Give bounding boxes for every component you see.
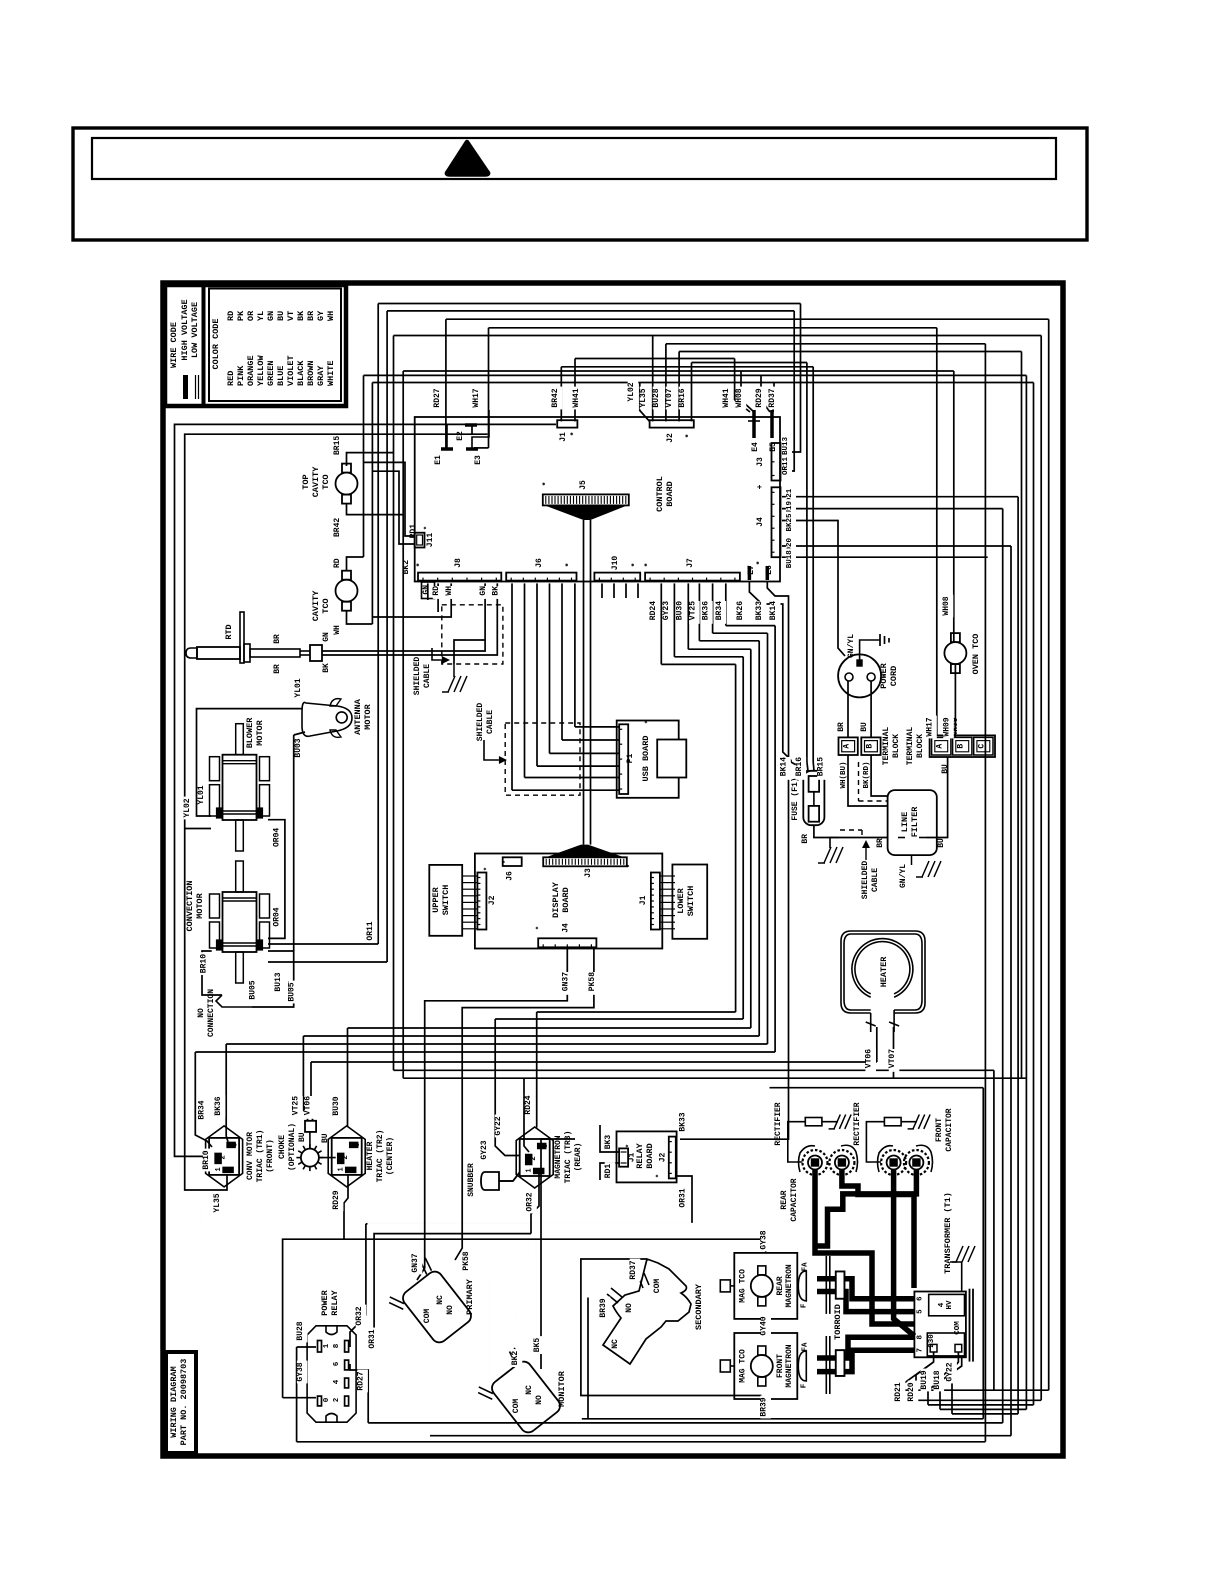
svg-text:GRAY: GRAY — [316, 365, 326, 386]
svg-text:YL02: YL02 — [183, 798, 192, 817]
svg-text:WH(BU): WH(BU) — [840, 761, 848, 788]
svg-text:GY22: GY22 — [946, 1362, 955, 1381]
svg-text:YL01: YL01 — [294, 678, 303, 697]
svg-text:6: 6 — [333, 1361, 341, 1366]
svg-text:E4: E4 — [751, 442, 760, 452]
svg-text:BR: BR — [876, 838, 885, 848]
svg-text:BLOCK: BLOCK — [892, 734, 901, 758]
svg-text:*: * — [424, 526, 432, 530]
svg-text:2: 2 — [333, 1397, 341, 1402]
svg-text:J2: J2 — [488, 895, 497, 905]
svg-text:F: F — [800, 1383, 808, 1388]
svg-text:WH: WH — [445, 586, 454, 596]
connector J3 control — [756, 443, 781, 489]
wires J4 pins right — [782, 497, 1018, 656]
svg-text:BU30: BU30 — [675, 601, 684, 620]
svg-text:BU18: BU18 — [786, 550, 794, 569]
svg-text:*: * — [756, 561, 765, 566]
svg-text:J10: J10 — [611, 556, 620, 571]
triac TR2 heater — [328, 1097, 395, 1209]
warning triangle — [447, 142, 488, 175]
svg-text:COM: COM — [653, 1279, 662, 1294]
svg-text:BR: BR — [306, 310, 316, 321]
svg-text:GN: GN — [322, 632, 331, 642]
svg-text:SWITCH: SWITCH — [686, 886, 696, 917]
svg-text:*: * — [685, 434, 694, 439]
svg-text:RTD: RTD — [224, 624, 234, 639]
svg-text:1: 1 — [338, 1167, 346, 1171]
svg-text:(CENTER): (CENTER) — [386, 1137, 395, 1175]
svg-text:BR: BR — [801, 834, 810, 844]
svg-text:*: * — [570, 432, 579, 437]
svg-text:*: * — [645, 720, 653, 724]
svg-text:OR04: OR04 — [273, 828, 282, 847]
diagram border — [163, 283, 1063, 1456]
wires oven TCO — [937, 328, 956, 738]
svg-text:2: 2 — [530, 1156, 538, 1161]
svg-text:0: 0 — [323, 1397, 331, 1402]
wire BU03 antenna — [294, 732, 305, 951]
svg-text:TRIAC (TR1): TRIAC (TR1) — [256, 1130, 265, 1183]
svg-text:COLOR CODE: COLOR CODE — [211, 318, 221, 369]
svg-text:COM: COM — [954, 1321, 962, 1335]
terminal E7 — [747, 565, 756, 580]
svg-text:RD21: RD21 — [894, 1382, 903, 1401]
svg-text:WH41: WH41 — [572, 388, 581, 407]
svg-text:MOTOR: MOTOR — [363, 703, 373, 729]
svg-text:BR34: BR34 — [197, 1100, 206, 1119]
svg-text:CABLE: CABLE — [423, 664, 432, 688]
svg-text:VT06: VT06 — [865, 1049, 874, 1068]
svg-text:F: F — [800, 1303, 808, 1308]
connector J4 control — [756, 487, 781, 565]
svg-text:2: 2 — [220, 1155, 228, 1160]
svg-text:BU: BU — [860, 722, 869, 732]
svg-text:A: A — [843, 744, 852, 749]
svg-text:BU: BU — [298, 1132, 307, 1142]
svg-text:OR: OR — [246, 310, 256, 321]
wires top cavity TCO — [347, 453, 404, 515]
svg-text:REAR: REAR — [780, 1190, 789, 1209]
wire verticals right side — [983, 319, 1048, 1442]
svg-text:GN/YL: GN/YL — [847, 634, 856, 658]
svg-text:BR15: BR15 — [817, 757, 826, 776]
svg-text:*: * — [644, 563, 653, 568]
svg-text:BK(RD): BK(RD) — [863, 761, 871, 788]
svg-text:5: 5 — [917, 1309, 925, 1314]
svg-text:GN/YL: GN/YL — [899, 864, 908, 888]
svg-text:NO: NO — [197, 1008, 206, 1018]
svg-text:BR42: BR42 — [333, 518, 342, 537]
wires J8 pins down — [372, 583, 485, 664]
HV wires rear magnetron FA — [817, 1279, 914, 1312]
svg-text:CONTROL: CONTROL — [655, 476, 665, 512]
svg-text:WH09: WH09 — [943, 717, 952, 736]
svg-text:CABLE: CABLE — [871, 868, 880, 892]
svg-text:1: 1 — [323, 1343, 331, 1348]
svg-text:CAPACITOR: CAPACITOR — [790, 1178, 799, 1221]
svg-text:BU13: BU13 — [274, 972, 283, 991]
svg-text:8: 8 — [917, 1335, 925, 1340]
HV wire rear capacitor left — [815, 1169, 914, 1324]
svg-text:NO: NO — [625, 1303, 634, 1313]
wire bundle bottom horizontal — [297, 1390, 1049, 1442]
svg-text:MONITOR: MONITOR — [557, 1370, 567, 1407]
oven TCO — [942, 596, 981, 674]
svg-text:A: A — [936, 744, 945, 749]
svg-text:GREEN: GREEN — [266, 360, 276, 386]
svg-text:RD: RD — [333, 558, 342, 568]
terminal E4 — [748, 410, 760, 452]
svg-text:BU30: BU30 — [332, 1096, 341, 1115]
svg-text:G: G — [232, 1143, 240, 1147]
primary interlock switch — [381, 1251, 475, 1353]
display board — [475, 854, 662, 949]
svg-text:LINE: LINE — [900, 812, 910, 832]
terminal E6 — [765, 565, 774, 580]
svg-text:RD24: RD24 — [649, 601, 658, 620]
svg-text:BK36: BK36 — [701, 601, 710, 620]
svg-text:J4: J4 — [756, 517, 765, 527]
svg-text:SHIELDED: SHIELDED — [413, 657, 422, 696]
svg-text:MAGNETRON: MAGNETRON — [785, 1344, 794, 1387]
svg-text:J6: J6 — [535, 558, 544, 568]
wire label overlay — [183, 381, 957, 1419]
svg-text:YELLOW: YELLOW — [256, 354, 266, 386]
svg-text:YL35: YL35 — [639, 388, 648, 407]
svg-text:J8: J8 — [454, 558, 463, 568]
terminal E2 — [456, 425, 477, 441]
terminal E3 — [466, 410, 489, 465]
svg-text:(FRONT): (FRONT) — [266, 1139, 275, 1173]
convection motor — [185, 828, 282, 983]
svg-text:BLACK: BLACK — [296, 360, 306, 386]
wires magnetron GY38 GY40 BR39 — [761, 1319, 763, 1399]
svg-text:RD20: RD20 — [907, 1382, 916, 1401]
svg-text:BR10: BR10 — [202, 1150, 211, 1169]
svg-text:BOARD: BOARD — [645, 1143, 655, 1169]
svg-text:COM: COM — [423, 1309, 432, 1324]
wires J11 RD1 BK2 — [364, 462, 415, 544]
svg-text:RD: RD — [226, 311, 236, 321]
svg-text:FILTER: FILTER — [910, 806, 920, 838]
svg-text:MAG TCO: MAG TCO — [738, 1349, 747, 1383]
toroid cores — [833, 1272, 844, 1376]
svg-text:1: 1 — [215, 1167, 223, 1171]
wires power relay — [283, 1223, 766, 1442]
svg-text:BU03: BU03 — [294, 738, 303, 757]
svg-text:BK33: BK33 — [755, 601, 764, 620]
svg-text:BK: BK — [296, 310, 306, 321]
svg-text:SHIELDED: SHIELDED — [476, 703, 485, 742]
svg-text:NC: NC — [436, 1295, 445, 1305]
wires line filter to C block — [926, 757, 948, 838]
svg-text:YL: YL — [256, 311, 266, 321]
svg-text:ANTENNA: ANTENNA — [353, 698, 363, 735]
svg-text:RD: RD — [432, 586, 441, 596]
svg-text:CABLE: CABLE — [486, 710, 495, 734]
svg-text:BU05: BU05 — [249, 980, 258, 999]
top cavity TCO — [301, 436, 358, 537]
HV wire front capacitor left — [894, 1169, 915, 1336]
svg-text:SECONDARY: SECONDARY — [694, 1283, 704, 1330]
svg-text:CAVITY: CAVITY — [311, 590, 321, 622]
svg-text:J2: J2 — [659, 1153, 668, 1163]
svg-text:SWITCH: SWITCH — [441, 885, 451, 916]
connector J1 — [557, 420, 579, 442]
wires RD1 BK3 to relay board J1 — [600, 1125, 619, 1180]
svg-text:E3: E3 — [474, 455, 483, 465]
svg-text:TCO: TCO — [321, 598, 331, 613]
svg-text:YL02: YL02 — [627, 382, 636, 401]
svg-text:TCO: TCO — [321, 474, 331, 489]
connector J2 display — [462, 867, 497, 930]
svg-text:POWER: POWER — [879, 662, 889, 688]
svg-text:RD27: RD27 — [433, 388, 442, 407]
svg-text:BK26: BK26 — [736, 601, 745, 620]
svg-text:*: * — [484, 867, 492, 871]
svg-text:SNUBBER: SNUBBER — [467, 1163, 476, 1197]
RTD probe — [186, 612, 331, 674]
power relay — [296, 1289, 377, 1422]
power cord — [838, 634, 899, 698]
antenna motor — [294, 678, 373, 756]
svg-text:BU: BU — [937, 838, 946, 848]
svg-text:1: 1 — [526, 1168, 534, 1172]
heater element — [841, 931, 925, 1068]
svg-text:COM: COM — [512, 1399, 521, 1414]
svg-text:HIGH VOLTAGE: HIGH VOLTAGE — [180, 299, 190, 360]
svg-text:BU13: BU13 — [782, 437, 790, 456]
svg-text:WIRE CODE: WIRE CODE — [169, 322, 179, 368]
svg-text:OR32: OR32 — [526, 1192, 535, 1211]
svg-text:BR: BR — [273, 664, 282, 674]
svg-text:BK36: BK36 — [214, 1096, 223, 1115]
wires J6 pins down to USB — [512, 583, 619, 790]
connector J11 — [415, 526, 435, 548]
svg-text:*: * — [536, 926, 544, 930]
svg-text:ORANGE: ORANGE — [246, 355, 256, 386]
svg-text:4: 4 — [938, 1302, 946, 1307]
wires motors — [197, 709, 388, 1007]
svg-text:CONV MOTOR: CONV MOTOR — [246, 1132, 255, 1180]
connector J10 — [594, 556, 640, 581]
svg-text:BU19: BU19 — [920, 1370, 929, 1389]
svg-text:BK14: BK14 — [780, 757, 789, 776]
svg-text:NO: NO — [535, 1395, 544, 1405]
legend box WIRE CODE / COLOR CODE — [165, 285, 346, 406]
svg-text:GY38: GY38 — [760, 1230, 769, 1249]
svg-text:8: 8 — [333, 1343, 341, 1348]
svg-text:VT25: VT25 — [292, 1096, 301, 1115]
svg-text:(REAR): (REAR) — [574, 1143, 583, 1172]
svg-text:BR39: BR39 — [760, 1397, 769, 1416]
svg-text:BR16: BR16 — [678, 388, 687, 407]
svg-text:WHITE: WHITE — [326, 360, 336, 386]
svg-text:USB BOARD: USB BOARD — [641, 736, 651, 782]
wire WH09 block B — [961, 664, 963, 735]
rear magnetron with mag TCO — [720, 1230, 830, 1319]
svg-text:J7: J7 — [686, 558, 695, 568]
svg-text:J1: J1 — [559, 432, 568, 442]
svg-text:J3: J3 — [756, 457, 765, 467]
svg-text:RD1: RD1 — [604, 1164, 613, 1179]
snubber — [467, 1163, 519, 1197]
svg-text:P1: P1 — [626, 754, 635, 764]
connector J5 with fan — [542, 480, 629, 520]
svg-text:*: * — [502, 860, 509, 864]
choke optional — [278, 1096, 336, 1171]
terminal block A B C — [906, 717, 995, 774]
svg-text:RD29: RD29 — [332, 1190, 341, 1209]
terminal E5 — [769, 410, 778, 452]
svg-text:RELAY: RELAY — [635, 1142, 645, 1168]
wire verticals from top bundle — [364, 304, 814, 1079]
svg-text:BU05: BU05 — [288, 982, 297, 1001]
svg-text:MAGNETRON: MAGNETRON — [785, 1264, 794, 1307]
ground at fuse shield — [818, 838, 843, 864]
shielded cable dashed box 2 — [476, 703, 580, 796]
svg-text:LOW VOLTAGE: LOW VOLTAGE — [190, 302, 200, 358]
svg-text:2: 2 — [342, 1155, 350, 1160]
connector J3 display with fan — [543, 845, 635, 878]
svg-text:WIRING DIAGRAM: WIRING DIAGRAM — [169, 1366, 179, 1437]
svg-text:GN: GN — [422, 585, 431, 595]
svg-text:BROWN: BROWN — [306, 360, 316, 386]
svg-text:4: 4 — [333, 1379, 341, 1384]
HV wires front magnetron FA — [817, 1337, 914, 1371]
svg-text:FA: FA — [801, 1342, 809, 1352]
svg-text:WH: WH — [326, 311, 336, 321]
svg-text:6: 6 — [917, 1296, 925, 1301]
svg-text:PRIMARY: PRIMARY — [465, 1278, 475, 1315]
wire labels J4 pins — [786, 487, 796, 570]
connector J6 — [506, 558, 576, 581]
wire corner B left YL35 — [185, 434, 488, 1190]
svg-text:BU: BU — [941, 764, 950, 774]
svg-text:B: B — [865, 744, 874, 749]
svg-text:*: * — [656, 1174, 664, 1178]
svg-text:DISPLAY: DISPLAY — [551, 881, 561, 918]
svg-text:RD29: RD29 — [755, 388, 764, 407]
svg-text:LOWER: LOWER — [676, 887, 686, 913]
svg-text:BK5: BK5 — [533, 1338, 542, 1353]
svg-text:VIOLET: VIOLET — [286, 355, 296, 386]
svg-text:230: 230 — [928, 1334, 936, 1348]
svg-text:E7: E7 — [747, 565, 756, 575]
svg-text:VT07: VT07 — [665, 388, 674, 407]
svg-text:TERMINAL: TERMINAL — [906, 727, 915, 766]
wires relay board to switches — [366, 1139, 789, 1223]
svg-text:J4: J4 — [561, 923, 570, 933]
line filter — [876, 790, 946, 888]
svg-text:J11: J11 — [426, 533, 435, 548]
svg-text:J3: J3 — [584, 868, 593, 878]
wire bundle center-right vertical — [680, 581, 791, 1139]
secondary interlock switch — [599, 1259, 704, 1364]
svg-text:GY38: GY38 — [296, 1362, 305, 1381]
svg-text:GY: GY — [316, 310, 326, 321]
svg-text:GN: GN — [479, 586, 488, 596]
HV wire rear capacitor right — [842, 1169, 914, 1288]
warning box outer — [73, 128, 1087, 240]
triac TR1 conv motor — [197, 1097, 275, 1212]
wires primary switch — [450, 1268, 462, 1283]
svg-text:E2: E2 — [456, 431, 465, 441]
svg-text:BK25: BK25 — [786, 513, 794, 532]
svg-text:CAVITY: CAVITY — [311, 466, 321, 498]
svg-text:G: G — [354, 1143, 362, 1147]
svg-text:BR10: BR10 — [199, 954, 208, 973]
connector J4 display — [536, 923, 597, 991]
svg-text:RED: RED — [226, 371, 236, 386]
svg-text:OR04: OR04 — [273, 907, 282, 926]
svg-text:GN37: GN37 — [411, 1253, 420, 1272]
svg-text:BU: BU — [276, 311, 286, 321]
svg-text:PK: PK — [236, 310, 246, 321]
wires fuse — [791, 760, 888, 838]
svg-text:PK58: PK58 — [588, 972, 597, 991]
connector J1 display — [639, 873, 675, 930]
front magnetron with mag TCO — [720, 1316, 830, 1416]
svg-text:BLOWER: BLOWER — [245, 717, 255, 749]
svg-text:B: B — [957, 744, 966, 749]
svg-text:VT07: VT07 — [888, 1049, 897, 1068]
lower switch — [672, 865, 707, 939]
wires heater VT06 VT07 — [877, 1027, 894, 1078]
front rectifier — [853, 1102, 930, 1162]
svg-text:HV: HV — [946, 1300, 954, 1310]
svg-text:GY22: GY22 — [494, 1116, 503, 1135]
wires J2 pin risers — [640, 336, 692, 421]
svg-text:BK3: BK3 — [604, 1135, 613, 1150]
terminal E1 — [434, 425, 453, 465]
svg-text:BR39: BR39 — [599, 1298, 608, 1317]
no connection stub — [197, 921, 375, 1037]
transformer T1 — [894, 1192, 973, 1401]
svg-text:WH08: WH08 — [735, 388, 744, 407]
svg-text:BLOCK: BLOCK — [916, 734, 925, 758]
svg-text:PART NO. 20098703: PART NO. 20098703 — [179, 1359, 189, 1446]
svg-text:POWER: POWER — [320, 1289, 330, 1315]
svg-text:BU28: BU28 — [652, 388, 661, 407]
wire labels control board top — [433, 382, 792, 477]
svg-text:VT25: VT25 — [688, 601, 697, 620]
svg-text:*: * — [542, 482, 551, 487]
connector J7 — [644, 558, 740, 581]
relay board — [604, 1112, 687, 1207]
svg-text:BK2: BK2 — [511, 1351, 520, 1366]
svg-text:J6: J6 — [506, 871, 515, 881]
svg-text:G: G — [542, 1144, 550, 1148]
svg-text:BOARD: BOARD — [665, 481, 675, 507]
svg-text:CHOKE: CHOKE — [278, 1135, 287, 1159]
svg-text:OR32: OR32 — [355, 1306, 364, 1325]
monitor switch — [470, 1338, 567, 1443]
svg-text:*: * — [565, 563, 574, 568]
svg-text:J1: J1 — [639, 895, 648, 905]
connector J2 — [650, 420, 694, 443]
wires power cord to blocks — [848, 681, 888, 806]
ground at line filter — [912, 855, 942, 877]
svg-text:GN37: GN37 — [561, 972, 570, 991]
wire bundle top horizontal — [364, 304, 1049, 383]
wire corner A left — [175, 424, 557, 1156]
wires J3 pins right — [782, 304, 801, 472]
svg-text:CONNECTION: CONNECTION — [207, 989, 216, 1037]
svg-text:E1: E1 — [434, 455, 443, 465]
svg-text:BOARD: BOARD — [561, 887, 571, 913]
